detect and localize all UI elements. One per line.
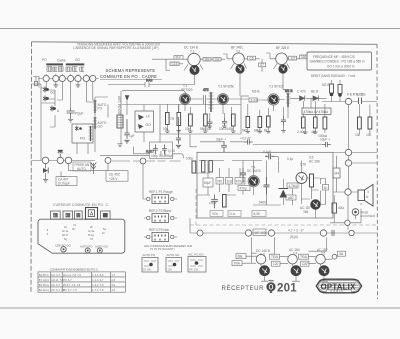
resistor box T8a bbox=[270, 254, 280, 259]
resistor R100 left of box bbox=[186, 157, 196, 174]
switch tab 2 bbox=[63, 211, 73, 219]
wire IF input bus lower bbox=[122, 104, 241, 106]
wire AF bus with capacitor RAS bbox=[108, 79, 195, 88]
wire right column bbox=[325, 104, 370, 134]
node circle A1 bbox=[42, 157, 49, 164]
resistor R18 bbox=[297, 117, 306, 134]
resistor box T9b bbox=[301, 261, 310, 266]
capacitor 30uF bbox=[216, 138, 227, 153]
box CE 45C bbox=[106, 171, 128, 182]
IF transformer MF2 bbox=[285, 89, 292, 107]
note: measurement conditions text bbox=[73, 42, 161, 50]
inductor AUTO PO bbox=[93, 100, 107, 113]
note: debit sans signaux bbox=[311, 74, 356, 78]
page top edge bbox=[0, 28, 400, 30]
transistor T6 audio (AC 187) bbox=[300, 199, 321, 214]
wire frame tap bracket bbox=[33, 77, 39, 88]
wire IF verticals bbox=[167, 98, 315, 132]
transistor T2 (SF 305c) bbox=[218, 85, 235, 105]
resistor box 2k2 bbox=[174, 56, 183, 60]
info box frequencies bbox=[307, 52, 372, 70]
resistor box T8b bbox=[272, 261, 281, 266]
switch box INC PO GO bbox=[188, 253, 206, 273]
wire speaker column bbox=[333, 153, 377, 230]
transistor T5 audio (AC 186) bbox=[296, 156, 320, 184]
node junction B5 bbox=[345, 220, 350, 225]
resistor box T7a bbox=[236, 254, 246, 259]
resistor R15 bbox=[242, 117, 250, 133]
switch contacts text bbox=[46, 223, 106, 241]
wire row 155 with capacitor bbox=[100, 150, 183, 159]
wire T2 leads bbox=[223, 54, 262, 96]
capacitor box CA407 bbox=[56, 177, 77, 186]
switch box AUTO PO bbox=[142, 253, 158, 272]
resistor M4 right bbox=[323, 185, 329, 191]
resistor box 36k bbox=[203, 57, 211, 61]
scan grain overlay bbox=[31, 42, 377, 298]
node junction R1 bbox=[345, 149, 351, 155]
footer: RECEPTEUR 201 bbox=[222, 280, 298, 295]
resistor u50 bbox=[286, 195, 296, 200]
transistor T3 top (BF 325) bbox=[276, 46, 290, 74]
note table header bbox=[50, 267, 99, 271]
audio amplifier enclosure bbox=[197, 152, 333, 218]
ferrite rod L1 bbox=[46, 63, 63, 65]
node bias bbox=[332, 251, 345, 259]
capacitor C padding bbox=[67, 108, 84, 117]
resistor R100k bbox=[318, 117, 328, 138]
resistor box 330 bbox=[300, 55, 308, 59]
node circle A4 bbox=[105, 157, 111, 163]
resistor 4k7 bbox=[287, 183, 298, 188]
note curseur commute bbox=[53, 203, 109, 207]
capacitor 100uF electrolytic bbox=[209, 195, 218, 209]
label PO Cadre GO bbox=[42, 58, 80, 63]
switch tab A bbox=[86, 208, 98, 220]
capacitor C in amp bbox=[238, 168, 250, 191]
resistor box C15 bbox=[170, 62, 179, 66]
wire T1 leads bbox=[152, 59, 225, 84]
switch shaft 3 bbox=[95, 245, 109, 254]
capacitor 10uF top right bbox=[320, 138, 331, 148]
node junction B0 bbox=[197, 230, 203, 236]
wire module boundary dashed bbox=[190, 189, 377, 225]
wire detector row bbox=[190, 98, 327, 100]
transistor T1 (SFT 320) bbox=[180, 84, 193, 104]
label prise ant auto bbox=[73, 162, 92, 171]
resistor R12 bbox=[185, 114, 192, 131]
wire tuning bus bbox=[38, 78, 99, 80]
ground above A2 bbox=[58, 150, 64, 157]
resistor R14 bbox=[229, 114, 236, 131]
wire lower IF bus bbox=[160, 96, 249, 134]
capacitor 47n top bbox=[240, 137, 253, 145]
speaker HP bbox=[358, 185, 373, 207]
wire left bus bbox=[32, 84, 47, 161]
switch tab 1 bbox=[51, 211, 61, 219]
switch body bbox=[38, 219, 125, 253]
transistor T3 (SF 320) bbox=[268, 85, 284, 106]
transistor T4 audio (SC 160 B) bbox=[247, 166, 261, 187]
capacitor box C6 bbox=[248, 56, 256, 60]
IF transformer MF1 bbox=[203, 88, 214, 112]
resistor box 2-24 bbox=[249, 90, 259, 103]
transistor cluster Q-osc bbox=[43, 87, 60, 114]
resistor Ra1 bbox=[202, 161, 205, 173]
connector P3 noir bbox=[144, 228, 177, 242]
switch box AUTO GO bbox=[166, 253, 182, 272]
box labels inside amp bottom bbox=[210, 211, 266, 217]
wire IF input bus upper bbox=[122, 91, 187, 95]
resistor R mid bbox=[310, 174, 314, 187]
switch shaft 1 bbox=[55, 244, 72, 253]
node junction B1 bbox=[245, 230, 251, 236]
wire T3 leads bbox=[266, 53, 300, 90]
ferrite rod L2 bbox=[66, 63, 85, 65]
oscillator coil box PO bbox=[72, 124, 93, 143]
ground under CV section 2 bbox=[53, 82, 58, 88]
logo OPTALIX bbox=[316, 279, 361, 293]
resistor box T9a bbox=[299, 254, 309, 259]
resistor box 07 bbox=[259, 63, 266, 67]
note connector caption bbox=[144, 244, 192, 251]
resistor R17 bbox=[264, 116, 270, 133]
node junction B3 bbox=[320, 230, 326, 236]
node circle A2 bbox=[57, 157, 63, 163]
wire amp internals bbox=[197, 156, 326, 218]
wire auto links bbox=[77, 92, 108, 154]
resistor 1k bbox=[226, 178, 233, 185]
resistor R10k bbox=[163, 113, 169, 132]
schematic frame bbox=[31, 42, 378, 299]
transistor T8 output (AC 184) bbox=[288, 248, 302, 276]
capacitor 470uF bbox=[235, 178, 245, 185]
ground C padding bbox=[68, 117, 73, 123]
capacitor C20 bbox=[206, 119, 212, 131]
wire earphone row bbox=[330, 203, 361, 223]
resistor box 127 bbox=[289, 56, 297, 60]
wire osc row bbox=[108, 91, 179, 144]
wire row 161 dashed bbox=[32, 159, 181, 162]
inductor AUTO GO bbox=[93, 117, 107, 129]
resistor R20 bbox=[355, 117, 361, 137]
resistor box 16k bbox=[213, 57, 221, 61]
label TR bbox=[170, 117, 175, 121]
switch tab 3 bbox=[75, 211, 83, 219]
connector P2 blanc bbox=[144, 209, 177, 223]
inductor L ant bbox=[117, 101, 127, 144]
wire CV drops bbox=[46, 74, 93, 108]
wire osc links bbox=[41, 90, 62, 127]
node circle A5 bbox=[140, 158, 146, 164]
node arrowheads L4 GO bbox=[135, 111, 154, 132]
wire L4 bbox=[144, 105, 160, 143]
label 47k C78 bbox=[287, 157, 306, 167]
capacitor box pair bbox=[150, 142, 174, 159]
jack prise ecouteur bbox=[352, 209, 375, 218]
node junction J1 bbox=[345, 98, 351, 104]
resistor Ra2 bbox=[209, 161, 212, 173]
node junction B4 bbox=[349, 230, 354, 235]
note: schema represente commute bbox=[100, 68, 162, 79]
resistor box WF400 bbox=[253, 229, 266, 236]
resistor box T7b bbox=[232, 261, 242, 266]
wire T9 bbox=[309, 237, 338, 281]
variable capacitor CV1 bbox=[43, 75, 96, 81]
coil windings bbox=[47, 67, 84, 72]
table commutations bbox=[38, 272, 125, 292]
label ferrite bbox=[347, 92, 366, 97]
ground L ant bbox=[117, 144, 122, 147]
switch shaft 2 bbox=[80, 245, 93, 254]
wire supply row bbox=[190, 218, 377, 233]
diode D audio bbox=[279, 189, 289, 198]
resistor R16 bbox=[254, 117, 262, 133]
transistor T7 output (DC 145 B) bbox=[256, 249, 270, 276]
capacitor C21 bbox=[219, 118, 228, 131]
wire antenna row bbox=[322, 80, 377, 150]
capacitor C ant2 bbox=[124, 119, 134, 143]
transistor T1 top (DC 134 B) bbox=[184, 46, 200, 76]
node junction B2 bbox=[268, 230, 274, 236]
resistor R13 bbox=[200, 114, 207, 131]
resistor R21 bbox=[366, 117, 372, 137]
label ANT PO GO bbox=[117, 96, 121, 115]
label 47 4.7 bbox=[288, 229, 304, 240]
node circle A3 bbox=[65, 157, 72, 164]
capacitor C osc bbox=[168, 117, 181, 153]
wire top of box bbox=[190, 134, 322, 152]
switch tab 5 bbox=[101, 211, 111, 219]
transistor T9 output (AC 187) bbox=[316, 248, 330, 276]
diode D ant bbox=[43, 164, 48, 182]
resistor M5 bbox=[216, 178, 224, 185]
ground symbols IF row bbox=[165, 126, 318, 133]
capacitor 50uF bbox=[203, 178, 213, 187]
wire ant area bbox=[61, 163, 108, 176]
resistor Rb1 bbox=[223, 195, 227, 208]
connector P1 rouge bbox=[144, 190, 177, 204]
wire T7 bbox=[242, 237, 268, 281]
wire A5 drop bbox=[134, 147, 145, 200]
node junction R3 bbox=[345, 189, 351, 195]
ground under CV section 5 bbox=[76, 82, 81, 88]
page bottom edge bbox=[0, 307, 400, 309]
resistor box 470k AV 470k bbox=[302, 108, 331, 115]
transistor T2 top (BF 345c) bbox=[231, 46, 245, 74]
capacitor C ant bbox=[357, 93, 363, 104]
diode D2 bbox=[311, 90, 318, 101]
capacitor supply bbox=[332, 230, 334, 236]
wire T8 bbox=[270, 237, 301, 281]
resistor 40ohm right bbox=[332, 195, 345, 223]
diode D1 (C47) bbox=[297, 90, 306, 101]
capacitor C22 bbox=[281, 116, 286, 126]
arrow ANT bbox=[125, 95, 130, 101]
resistor box M4 outer bbox=[333, 156, 340, 192]
potentiometer volume M2B bbox=[322, 83, 342, 97]
node junction R2 bbox=[345, 160, 351, 166]
capacitor 6400 bbox=[259, 177, 270, 205]
resistor R19 bbox=[311, 117, 317, 134]
resistor R11 bbox=[177, 113, 181, 126]
antenna symbol bbox=[91, 163, 97, 175]
capacitor 0.1uF top bbox=[263, 150, 274, 160]
